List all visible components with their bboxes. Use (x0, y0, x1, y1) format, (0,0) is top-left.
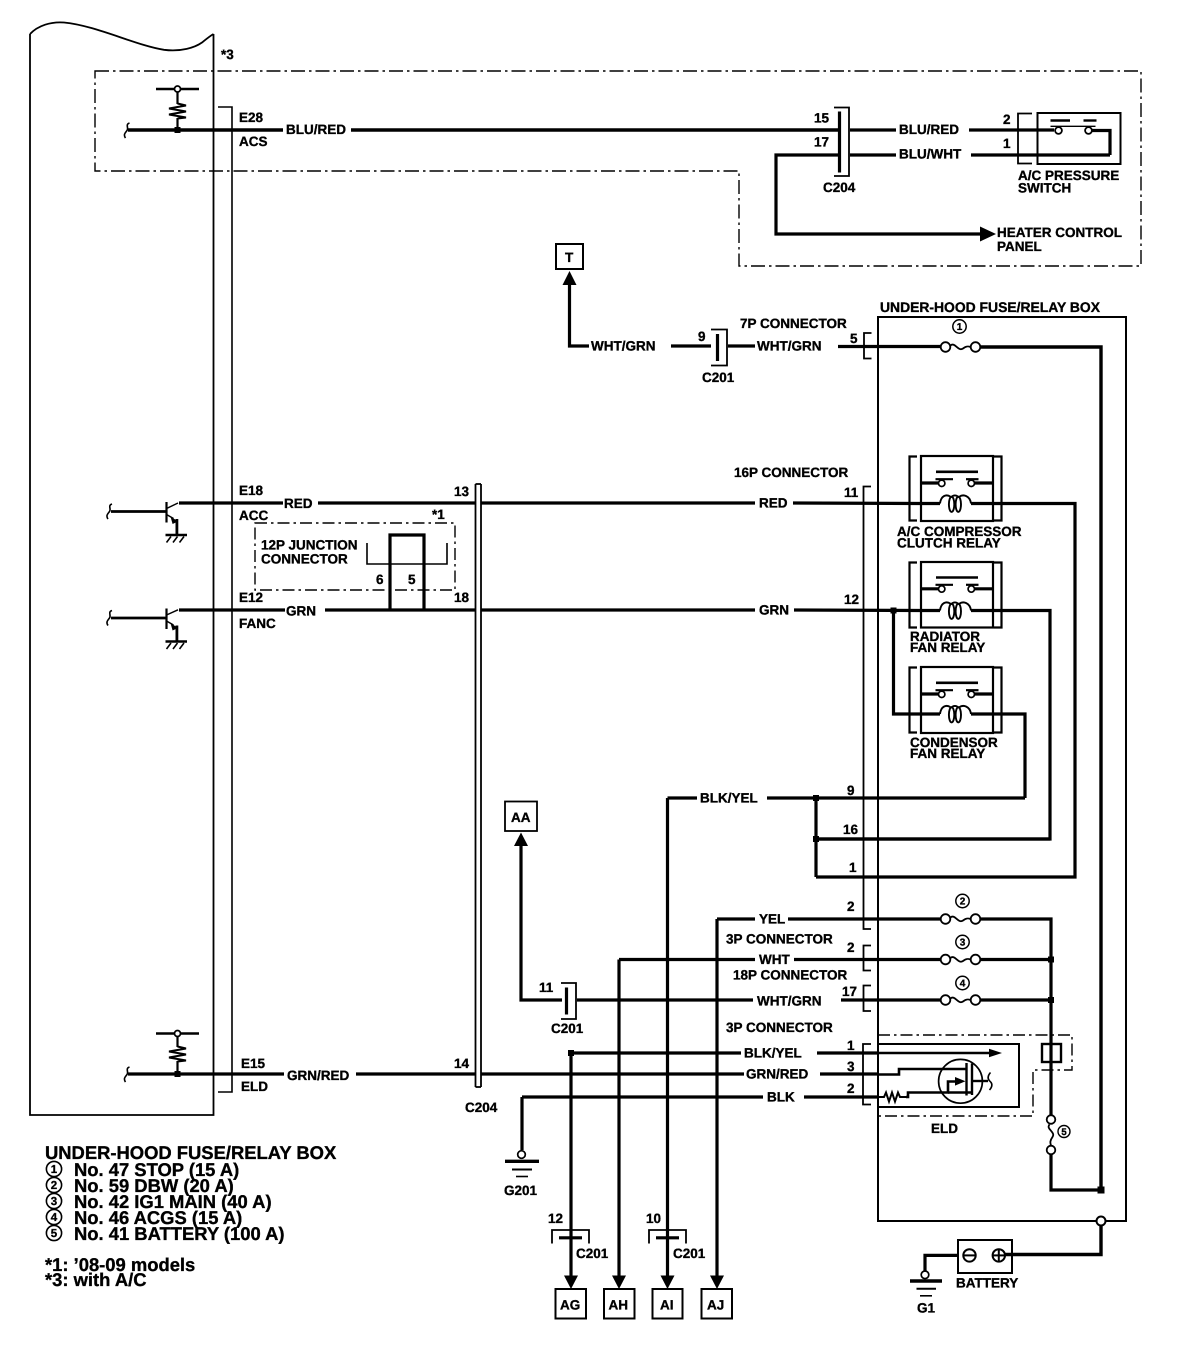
svg-text:E15: E15 (241, 1056, 266, 1071)
wire WHT/GRN to AA (521, 845, 562, 1000)
svg-text:BLU/RED: BLU/RED (899, 122, 959, 137)
legend item 1 (46, 1161, 61, 1176)
connector C201 at AG (552, 1230, 589, 1244)
svg-text:2: 2 (847, 899, 855, 914)
svg-text:3P CONNECTOR: 3P CONNECTOR (726, 932, 833, 947)
junction dot on E28 wire (175, 127, 181, 133)
pass-through terminal on box edge (1097, 1217, 1106, 1226)
svg-text:1: 1 (957, 322, 963, 333)
svg-text:5: 5 (51, 1228, 58, 1240)
arrow up to AA (514, 833, 528, 847)
wire E18 ACC RED (left) (179, 501, 475, 504)
svg-text:18: 18 (454, 590, 470, 605)
battery positive terminal (993, 1249, 1005, 1261)
svg-text:5: 5 (1061, 1127, 1067, 1138)
svg-text:T: T (565, 250, 574, 265)
wire BLU/WHT to switch pin 1 (850, 153, 1110, 156)
legend item 4 (46, 1209, 61, 1224)
svg-text:ELD: ELD (931, 1121, 958, 1136)
arrow into AH (612, 1276, 626, 1290)
arrow into AG (564, 1276, 578, 1290)
svg-text:*3: *3 (221, 47, 234, 62)
svg-text:11: 11 (539, 980, 554, 995)
connector C204 pins 15/17 (834, 108, 849, 177)
wire fuse 3 to bus (981, 958, 1052, 961)
svg-text:3: 3 (960, 938, 966, 949)
wire E28 ACS BLU/RED (left) (128, 128, 838, 131)
fuse 4 symbol (941, 995, 981, 1005)
svg-text:ACC: ACC (239, 508, 268, 523)
svg-text:RED: RED (759, 496, 788, 511)
switch fixed contact bars (1051, 121, 1097, 127)
switch contact circles (1055, 127, 1062, 134)
svg-text:3: 3 (847, 1059, 855, 1074)
svg-text:FAN RELAY: FAN RELAY (910, 746, 985, 761)
svg-text:YEL: YEL (759, 912, 785, 927)
wire BLU/WHT branch to heater control panel (776, 155, 981, 234)
svg-text:UNDER-HOOD FUSE/RELAY BOX: UNDER-HOOD FUSE/RELAY BOX (880, 299, 1101, 315)
svg-text:*3: with A/C: *3: with A/C (45, 1269, 147, 1290)
svg-text:GRN: GRN (759, 603, 789, 618)
svg-text:C201: C201 (702, 370, 735, 385)
svg-text:C201: C201 (551, 1021, 584, 1036)
svg-text:C201: C201 (576, 1246, 609, 1261)
svg-text:GRN: GRN (286, 604, 316, 619)
junction dot pin 16 (813, 836, 819, 842)
circled 4 fuse number (956, 976, 969, 989)
junction connector bus staple (367, 543, 447, 564)
svg-text:12: 12 (844, 592, 859, 607)
wire BLK ELD pin 2 (522, 1095, 879, 1098)
relay U3 condensor fan relay (910, 667, 1002, 733)
svg-text:ELD: ELD (241, 1079, 268, 1094)
svg-text:CONNECTOR: CONNECTOR (261, 552, 348, 567)
svg-text:16: 16 (843, 822, 859, 837)
A/C pressure switch connector bracket (1018, 114, 1032, 164)
arrow to heater control panel (980, 227, 996, 242)
svg-text:14: 14 (454, 1056, 470, 1071)
wire RED pin 11 (481, 501, 921, 505)
ELD source wire pin 2 (906, 1082, 957, 1098)
svg-text:AI: AI (660, 1298, 674, 1313)
svg-text:10: 10 (646, 1211, 661, 1226)
svg-text:AJ: AJ (707, 1298, 724, 1313)
wire relay U2 output to pin 16 (816, 611, 1050, 840)
svg-text:G1: G1 (917, 1301, 936, 1316)
wire into fuse 1 (838, 345, 941, 348)
ELD current sense element box (1042, 1044, 1061, 1062)
box AJ (702, 1289, 733, 1319)
transistor driver at E18 (107, 502, 187, 543)
svg-text:FAN RELAY: FAN RELAY (910, 640, 985, 655)
wire E15 ELD GRN/RED (left) (128, 1072, 475, 1075)
wire WHT/GRN pin 5 (728, 344, 755, 347)
ELD dash-dot enclosure (878, 1035, 1072, 1116)
svg-text:BLU/RED: BLU/RED (286, 122, 346, 137)
svg-text:6: 6 (376, 572, 384, 587)
svg-text:16P CONNECTOR: 16P CONNECTOR (734, 465, 849, 480)
svg-text:18P CONNECTOR: 18P CONNECTOR (733, 968, 848, 983)
svg-text:GRN/RED: GRN/RED (287, 1068, 350, 1083)
ELD mosfet drain and body hook (972, 1080, 988, 1082)
wire YEL pin 2 (717, 917, 941, 920)
resistor pull-up at E15 (156, 1031, 199, 1075)
17 connector bracket (864, 986, 872, 1012)
ELD arrow wire pin 1 (878, 1052, 990, 1055)
wire BLU/RED to switch pin 2 (850, 128, 1054, 131)
svg-text:WHT/GRN: WHT/GRN (591, 339, 656, 354)
svg-text:5: 5 (408, 572, 416, 587)
wire to AG connector (569, 1056, 572, 1276)
wire to AI connector (666, 798, 669, 1276)
wire relay U3 output to pin 9 (993, 714, 1025, 798)
svg-text:E18: E18 (239, 483, 264, 498)
7P connector bracket pin 5 (864, 333, 872, 359)
wire GRN/RED ELD pin 3 (481, 1072, 878, 1075)
wire from fuse 1 down right side (981, 347, 1102, 1190)
battery box (958, 1240, 1012, 1273)
svg-text:BATTERY: BATTERY (956, 1276, 1018, 1291)
junction dot battery feed (1098, 1187, 1105, 1194)
junction dot pin 9 branch (813, 795, 819, 801)
legend item 2 (46, 1177, 61, 1192)
svg-text:C204: C204 (465, 1100, 498, 1115)
18P connector bracket (864, 946, 872, 971)
under-hood fuse/relay box outline (878, 317, 1126, 1221)
relay U1 A/C compressor clutch relay (910, 456, 1002, 521)
junction connector jumper legs 6-5 (390, 535, 424, 610)
dash-dot box: with A/C section (95, 71, 1141, 266)
wire fuse 2 to ELD sense (981, 919, 1052, 1116)
circled 2 fuse number (956, 894, 969, 907)
svg-text:E12: E12 (239, 590, 263, 605)
junction dot BLK/YEL to AG (568, 1050, 574, 1056)
junction dot fuse 4 (1048, 997, 1054, 1003)
junction dot on E15 wire (175, 1071, 181, 1077)
fuse 2 symbol (941, 914, 981, 924)
wire to AJ connector (715, 919, 718, 1276)
ELD source arrow (955, 1077, 966, 1086)
svg-text:4: 4 (960, 979, 966, 990)
svg-text:E28: E28 (239, 110, 264, 125)
junction dot fuse 3 (1048, 957, 1054, 963)
svg-text:WHT/GRN: WHT/GRN (757, 339, 822, 354)
T destination box (556, 244, 583, 269)
wire to AH connector (617, 960, 620, 1277)
wire battery negative to G1 (925, 1255, 958, 1270)
connector C201 pin 9 (711, 330, 727, 366)
3P connector bracket ELD (863, 1044, 871, 1105)
wire WHT pin 2 (619, 958, 941, 961)
battery negative terminal (963, 1249, 975, 1261)
fuse 3 symbol (941, 955, 981, 965)
ECM connector bracket E (218, 107, 232, 1092)
svg-text:15: 15 (814, 111, 830, 126)
svg-text:5: 5 (850, 331, 858, 346)
fuse 5 symbol (1047, 1115, 1056, 1154)
wire pin 16 (816, 837, 1050, 840)
wire branch GRN to condensor relay (894, 611, 922, 715)
relay U2 radiator fan relay (910, 562, 1002, 628)
ELD mosfet circle (939, 1059, 983, 1103)
svg-text:12P JUNCTION: 12P JUNCTION (261, 538, 358, 553)
svg-text:G201: G201 (504, 1183, 538, 1198)
svg-text:17: 17 (814, 135, 829, 150)
16P connector bracket (864, 487, 872, 930)
wire BLK/YEL pin 9 (668, 796, 1026, 799)
svg-text:3P CONNECTOR: 3P CONNECTOR (726, 1020, 833, 1035)
svg-text:ACS: ACS (239, 134, 268, 149)
svg-text:4: 4 (51, 1212, 58, 1224)
wire E12 FANC GRN (left) (179, 608, 475, 611)
svg-text:9: 9 (847, 783, 855, 798)
legend item 5 (46, 1225, 61, 1240)
switch internal path pin1 (1092, 131, 1110, 156)
svg-text:BLK/YEL: BLK/YEL (700, 791, 758, 806)
svg-text:AA: AA (511, 810, 531, 825)
junction dot on GRN wire (891, 608, 897, 614)
svg-text:11: 11 (844, 485, 859, 500)
svg-text:1: 1 (847, 1038, 855, 1053)
wire box to battery positive (1003, 1226, 1101, 1255)
torn page edge of ECM sheet (30, 22, 214, 1115)
svg-text:7P CONNECTOR: 7P CONNECTOR (740, 316, 847, 331)
svg-text:2: 2 (51, 1180, 57, 1192)
AA destination box (505, 802, 537, 832)
ELD resistor on pin 2 (879, 1093, 906, 1102)
wire-end slash E15 (124, 1067, 129, 1082)
svg-text:CLUTCH RELAY: CLUTCH RELAY (897, 536, 1001, 551)
svg-text:2: 2 (847, 1081, 855, 1096)
ELD mosfet gate and channel bars (967, 1063, 973, 1096)
arrow up to T (563, 271, 577, 285)
svg-text:12: 12 (548, 1211, 563, 1226)
svg-text:2: 2 (1003, 112, 1011, 127)
wire BLK/YEL ELD pin 1 (571, 1051, 878, 1054)
wire fuse 5 to battery feed (1051, 1154, 1101, 1190)
ground G201 (505, 1151, 539, 1177)
svg-text:1: 1 (1003, 136, 1011, 151)
arrow into AI (661, 1276, 675, 1290)
svg-text:2: 2 (960, 897, 966, 908)
svg-text:BLK: BLK (767, 1090, 795, 1105)
wire BLK down to G201 (520, 1097, 523, 1150)
svg-text:BLU/WHT: BLU/WHT (899, 147, 962, 162)
svg-text:SWITCH: SWITCH (1018, 181, 1071, 196)
svg-text:HEATER CONTROL: HEATER CONTROL (997, 225, 1122, 240)
arrow into AJ (710, 1276, 724, 1290)
wire branch to pins 16 and 1 (814, 798, 817, 877)
wire-end slash E28 (124, 123, 129, 138)
svg-text:GRN/RED: GRN/RED (746, 1067, 809, 1082)
12P junction connector dash-dot box (255, 523, 455, 590)
svg-text:BLK/YEL: BLK/YEL (744, 1046, 802, 1061)
svg-text:C201: C201 (673, 1246, 706, 1261)
svg-text:2: 2 (847, 940, 855, 955)
ELD body box (878, 1044, 1019, 1107)
transistor driver at E12 (107, 609, 187, 650)
wire fuse 4 to bus (981, 998, 1052, 1001)
svg-text:AH: AH (609, 1298, 629, 1313)
svg-text:FANC: FANC (239, 616, 276, 631)
resistor pull-up at E28 (156, 86, 199, 130)
ground G1 (910, 1271, 942, 1296)
wire relay U1 output to pin 1 (816, 504, 1075, 878)
svg-text:17: 17 (842, 984, 857, 999)
box AI (653, 1289, 683, 1319)
wire WHT/GRN pin 17 (577, 998, 941, 1001)
svg-text:9: 9 (698, 329, 706, 344)
box AH (604, 1289, 635, 1319)
svg-text:3: 3 (51, 1196, 57, 1208)
svg-text:1: 1 (51, 1164, 58, 1176)
svg-text:No. 41 BATTERY (100 A): No. 41 BATTERY (100 A) (74, 1223, 285, 1244)
svg-text:1: 1 (849, 860, 857, 875)
svg-text:WHT: WHT (759, 952, 790, 967)
wire GRN pin 12 (481, 608, 921, 612)
svg-text:RED: RED (284, 496, 313, 511)
legend item 3 (46, 1193, 61, 1208)
svg-text:*1: *1 (432, 507, 445, 522)
connector C201 at AI (649, 1230, 686, 1244)
svg-text:13: 13 (454, 484, 470, 499)
svg-text:WHT/GRN: WHT/GRN (757, 994, 822, 1009)
svg-text:PANEL: PANEL (997, 239, 1042, 254)
connector C201 pin 11 (561, 983, 576, 1019)
circled 1 fuse number (953, 320, 966, 333)
circled 5 fuse number (1058, 1126, 1070, 1138)
svg-text:AG: AG (560, 1298, 580, 1313)
svg-text:C204: C204 (823, 180, 856, 195)
ELD mosfet gate wire pin 3 (878, 1069, 966, 1075)
circled 3 fuse number (956, 935, 969, 948)
connector C204 multi-pin bar (476, 484, 482, 1087)
box AG (556, 1289, 587, 1319)
A/C pressure switch body (1038, 113, 1121, 164)
wire WHT/GRN to T (570, 284, 590, 346)
fuse 1 symbol (941, 342, 981, 352)
